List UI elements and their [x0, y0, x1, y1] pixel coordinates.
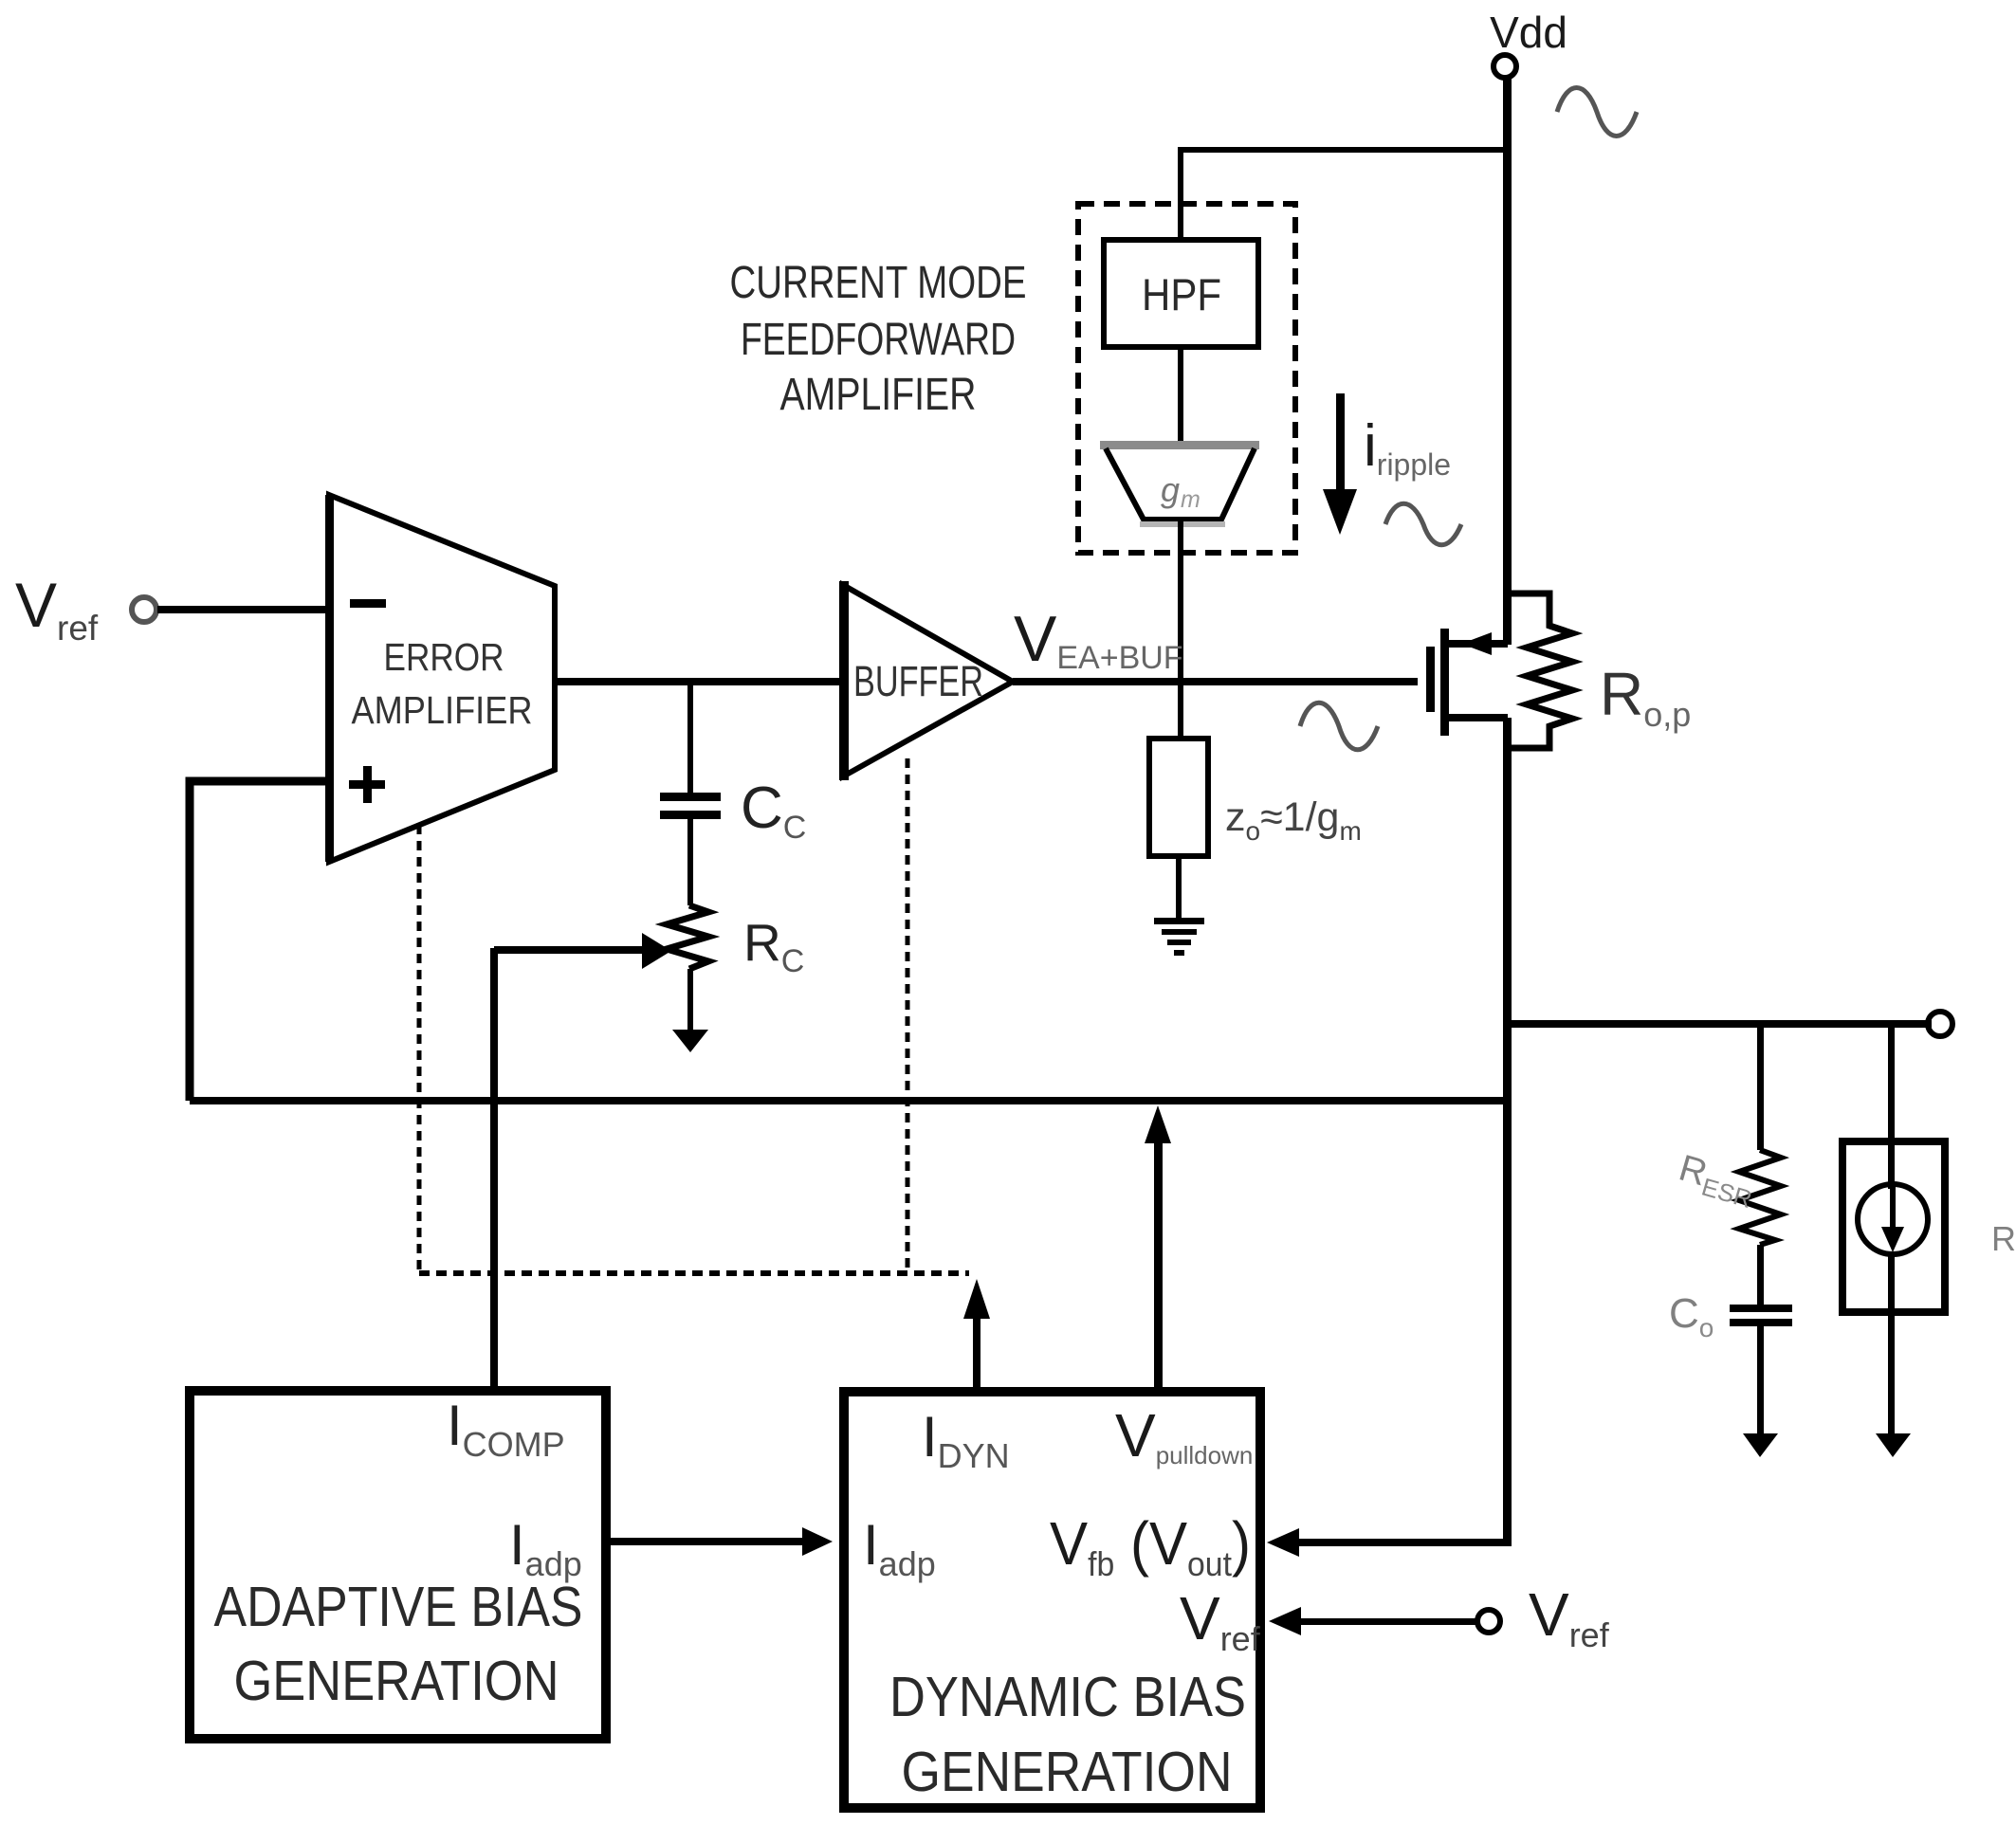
wire gm output to VEA+BUF node [1178, 520, 1183, 682]
wire feedback line [190, 1097, 1507, 1104]
svg-text:AMPLIFIER: AMPLIFIER [780, 370, 977, 420]
dashed compensation path from error amplifier [417, 825, 422, 1273]
wire Iadp between blocks [611, 1538, 816, 1545]
wire Vdd to feedforward branch [1181, 150, 1507, 240]
wire feedback to plus input [190, 781, 329, 1101]
wire Vref to inverting input [157, 606, 329, 613]
label CURRENT MODE FEEDFORWARD AMPLIFIER [730, 258, 1027, 420]
output terminal [1928, 1012, 1952, 1036]
svg-text:ERROR: ERROR [384, 635, 504, 679]
buffer U2 [843, 585, 1013, 776]
svg-text:FEEDFORWARD: FEEDFORWARD [741, 315, 1016, 365]
wire ICOMP down to adaptive bias block [490, 948, 498, 1386]
wire HPF to gm [1178, 347, 1183, 444]
block ADAPTIVE BIAS GENERATION [190, 1391, 606, 1739]
M1 drain connection [1449, 714, 1508, 721]
arrow ICOMP into RC [494, 946, 646, 954]
arrow IDYN out of dynamic block [973, 1317, 981, 1392]
plus sign [349, 780, 385, 789]
ground below RL [1876, 1433, 1911, 1457]
M1 source connection with arrow [1449, 640, 1508, 648]
wire RESR to Co [1757, 1245, 1764, 1306]
resistor RESR branch wire [1757, 1024, 1764, 1150]
wire Vdd rail vertical [1503, 78, 1512, 645]
label RESR [1673, 1147, 1760, 1214]
svg-text:m: m [1181, 486, 1200, 513]
impedance block Zo [1149, 739, 1208, 856]
svg-text:HPF: HPF [1142, 269, 1221, 319]
dashed compensation path from buffer [906, 758, 910, 1273]
svg-text:RL: RL [1991, 1219, 2016, 1265]
block HPF [1104, 240, 1258, 347]
wire error amplifier output [555, 678, 843, 685]
op-amp U1 error amplifier body [329, 495, 555, 862]
ground below Co [1743, 1433, 1778, 1457]
wire drain down to output node [1503, 718, 1512, 1542]
block DYNAMIC BIAS GENERATION [844, 1392, 1260, 1808]
wire Co to ground [1757, 1326, 1764, 1433]
wire output node to output terminal [1507, 1020, 1932, 1028]
capacitor Co [1730, 1305, 1792, 1312]
impedance Zo wire [1178, 685, 1183, 739]
minus sign [350, 599, 386, 608]
dashed enclosure current-mode feedforward amplifier [1078, 204, 1295, 553]
svg-text:CURRENT MODE: CURRENT MODE [730, 258, 1027, 308]
ground below Zo [1154, 918, 1204, 924]
arrow Vpulldown up to feedback line [1154, 1141, 1163, 1392]
wire Zo to ground [1176, 856, 1182, 919]
bottom terminal Vref [1477, 1610, 1500, 1633]
wire buffer output to pass transistor gate [1013, 678, 1418, 685]
current arrow i_ripple [1336, 393, 1345, 493]
svg-text:GENERATION: GENERATION [234, 1650, 559, 1712]
ac symbol i_ripple [1385, 503, 1461, 545]
svg-text:AMPLIFIER: AMPLIFIER [352, 688, 533, 732]
ac symbol on gate node [1300, 703, 1378, 750]
load RL current source box [1842, 1141, 1945, 1312]
transconductor gm [1100, 441, 1259, 527]
resistor RC (variable) [667, 905, 708, 969]
svg-text:DYNAMIC BIAS: DYNAMIC BIAS [889, 1666, 1246, 1728]
ground arrow below RC [687, 969, 693, 1031]
svg-text:Vdd: Vdd [1490, 8, 1567, 57]
resistor Ro,p [1507, 593, 1572, 748]
capacitor CC [687, 682, 693, 793]
power terminal Vdd [1494, 55, 1516, 78]
ac source symbol at Vdd [1557, 88, 1637, 137]
wire Vfb return into dynamic bias block [1278, 1539, 1512, 1546]
dashed compensation path horizontal [419, 1270, 969, 1276]
wire RL to ground [1888, 1312, 1895, 1433]
pass transistor M1 channel bar [1440, 629, 1449, 736]
svg-text:BUFFER: BUFFER [853, 657, 983, 705]
pass transistor M1 PMOS gate bar [1426, 647, 1435, 712]
svg-text:GENERATION: GENERATION [902, 1741, 1233, 1803]
svg-text:g: g [1161, 470, 1180, 509]
resistor RESR [1739, 1150, 1781, 1245]
svg-text:ADAPTIVE BIAS: ADAPTIVE BIAS [214, 1576, 583, 1638]
load RL branch wire [1888, 1024, 1895, 1141]
label ERROR AMPLIFIER [352, 635, 533, 732]
